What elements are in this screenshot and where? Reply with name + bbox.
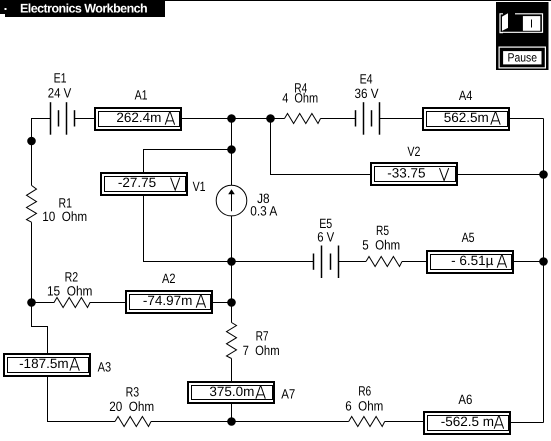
svg-text:6 Ohm: 6 Ohm: [345, 398, 383, 413]
ammeter A5: [427, 251, 513, 273]
svg-text:V1: V1: [193, 179, 206, 194]
wire R6 to A6: [385, 421, 423, 423]
svg-text:E4: E4: [360, 72, 373, 87]
current source J8: [216, 185, 247, 216]
svg-text:A1: A1: [135, 87, 148, 102]
wire top-left corner from E1 to left vertical: [32, 119, 51, 186]
node junction at (231,149.5): [227, 145, 236, 154]
svg-text:R5: R5: [376, 223, 389, 238]
ammeter A2: [126, 291, 212, 313]
bottom wire R3 to R6: [151, 421, 349, 423]
power switch icon: [500, 14, 543, 33]
title bar: [0, 0, 165, 14]
wire J8 bottom to R7: [231, 216, 233, 323]
ammeter A7: [188, 382, 274, 403]
resistor R1: [27, 185, 37, 222]
svg-text:20 Ohm: 20 Ohm: [109, 399, 154, 414]
svg-text:A5: A5: [462, 230, 475, 245]
svg-text:R3: R3: [126, 385, 140, 400]
svg-text:262.4m: 262.4m: [116, 110, 161, 125]
ammeter A6: [424, 412, 510, 434]
battery E4: [356, 102, 380, 135]
svg-text:0.3 A: 0.3 A: [250, 204, 277, 219]
resistor R4: [285, 114, 321, 124]
svg-text:A2: A2: [162, 271, 176, 286]
wire J8 branch from top row: [231, 119, 233, 186]
svg-text:10 Ohm: 10 Ohm: [42, 209, 87, 224]
wire A4 to right vertical: [510, 118, 544, 120]
svg-text:Pause: Pause: [508, 51, 538, 65]
svg-text:A3: A3: [98, 359, 112, 374]
wire A2 to node: [213, 302, 232, 304]
wire V2 branch from top row: [271, 119, 371, 175]
svg-text:375.0m: 375.0m: [209, 384, 254, 399]
svg-text:A4: A4: [459, 88, 473, 103]
ammeter A1: [95, 108, 181, 130]
node junction at (231,118): [227, 114, 236, 123]
svg-text:E1: E1: [54, 71, 67, 86]
node junction at (543,262): [539, 257, 548, 266]
resistor R2: [32, 298, 126, 308]
wire A1 to R4: [182, 118, 285, 120]
power/pause panel: [496, 2, 549, 70]
voltmeter V2: [371, 163, 457, 185]
svg-text:4 Ohm: 4 Ohm: [282, 91, 318, 106]
node junction at (231,421.5): [227, 417, 236, 426]
node junction at (231,261.5): [227, 257, 236, 266]
wire V1 top branch: [144, 150, 232, 173]
ammeter A3: [4, 354, 90, 376]
svg-text:A6: A6: [458, 392, 472, 407]
resistor R6: [349, 417, 385, 427]
wire V2 to right vertical: [458, 174, 544, 176]
svg-text:6 V: 6 V: [317, 229, 334, 244]
svg-text:7 Ohm: 7 Ohm: [243, 343, 280, 358]
svg-text:15 Ohm: 15 Ohm: [47, 284, 93, 299]
svg-text:A7: A7: [281, 387, 295, 402]
battery E1: [51, 102, 75, 135]
pause button: [499, 47, 545, 68]
top window border line: [0, 0, 551, 1]
wire V1 bottom branch: [144, 195, 232, 262]
node junction at (543,174): [539, 170, 548, 179]
svg-text:R2: R2: [65, 270, 79, 285]
svg-text:36 V: 36 V: [355, 86, 379, 101]
node junction at (270.5,118): [266, 114, 275, 123]
wire E5 branch: [232, 261, 314, 263]
wire R5 to A5: [402, 261, 426, 263]
node junction at (30.5,302.5): [27, 298, 36, 307]
svg-text:-562.5 m: -562.5 m: [441, 414, 494, 429]
node junction at (231,302.5): [227, 298, 236, 307]
voltmeter V1: [101, 173, 187, 195]
wire E1 to A1: [75, 118, 95, 120]
resistor R3: [115, 417, 151, 427]
wire R4 to E4: [321, 118, 356, 120]
battery E5: [314, 246, 339, 279]
node junction at (30.5,141): [27, 137, 36, 146]
svg-text:- 6.51µ: - 6.51µ: [451, 253, 494, 268]
svg-text:-187.5m: -187.5m: [19, 356, 69, 371]
wire A5 to right vertical: [514, 261, 544, 263]
svg-text:Electronics Workbench: Electronics Workbench: [20, 2, 147, 16]
svg-text:R7: R7: [256, 329, 269, 344]
wire E5 to R5: [339, 261, 367, 263]
wire R7 to A7: [231, 359, 233, 382]
wire A7 to bottom wire: [231, 404, 233, 422]
resistor R5: [366, 257, 402, 267]
svg-text:R6: R6: [358, 383, 371, 398]
left vertical wire below R1 with jog to A3: [32, 222, 48, 353]
ammeter A4: [423, 108, 509, 130]
svg-text:-74.97m: -74.97m: [143, 293, 193, 308]
wire A3 to bottom wire: [48, 377, 116, 422]
svg-text:V2: V2: [407, 144, 420, 159]
svg-text:24 V: 24 V: [48, 86, 72, 101]
svg-text:5 Ohm: 5 Ohm: [362, 238, 400, 253]
wire into A6 right side: [511, 422, 544, 424]
svg-text:-33.75: -33.75: [387, 165, 425, 180]
right vertical wire: [543, 119, 545, 423]
svg-text:562.5m: 562.5m: [444, 110, 489, 125]
svg-text:-27.75: -27.75: [118, 175, 156, 190]
resistor R7: [227, 323, 237, 359]
wire E4 to A4: [380, 118, 423, 120]
